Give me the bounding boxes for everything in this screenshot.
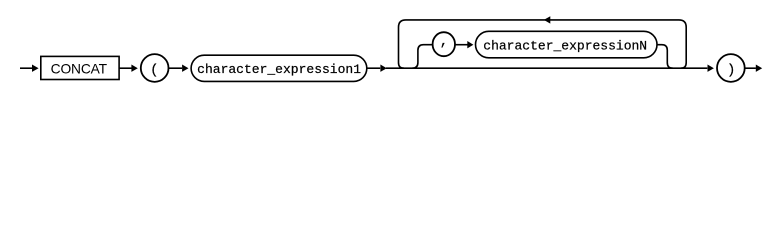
terminal circle comma bbox=[433, 32, 455, 56]
wire loop back over the top bbox=[399, 20, 687, 68]
svg-text:character_expressionN: character_expressionN bbox=[483, 38, 647, 53]
arrow end bbox=[756, 65, 762, 72]
wire down from character_expressionN to main rail bbox=[657, 45, 673, 68]
box CONCAT bbox=[41, 56, 119, 79]
pill character_expressionN bbox=[476, 31, 658, 58]
arrow into character_expression1 bbox=[182, 65, 188, 72]
pill character_expression1 bbox=[191, 55, 367, 81]
wire after ( bbox=[169, 67, 183, 69]
arrow into CONCAT bbox=[32, 65, 39, 72]
terminal circle ) bbox=[717, 54, 745, 82]
wire after ) bbox=[745, 67, 756, 69]
arrow on loop pointing left bbox=[544, 16, 551, 23]
wire after character_expression1 bbox=[367, 67, 380, 69]
arrow into character_expressionN bbox=[467, 41, 473, 48]
wire start bbox=[20, 67, 32, 69]
wire after comma bbox=[455, 44, 467, 46]
wire after CONCAT bbox=[119, 67, 132, 69]
svg-text:CONCAT: CONCAT bbox=[51, 62, 108, 77]
svg-text:character_expression1: character_expression1 bbox=[197, 62, 361, 77]
arrow into ) bbox=[708, 65, 714, 72]
main rail wire to ) bbox=[386, 67, 707, 69]
terminal circle ( bbox=[141, 54, 169, 82]
arrow on main rail bbox=[380, 65, 386, 72]
arrow into ( bbox=[131, 65, 137, 72]
wire branch up to comma level bbox=[412, 45, 432, 68]
svg-text:(: ( bbox=[150, 63, 158, 79]
svg-text:,: , bbox=[440, 34, 448, 50]
svg-text:): ) bbox=[727, 63, 735, 79]
